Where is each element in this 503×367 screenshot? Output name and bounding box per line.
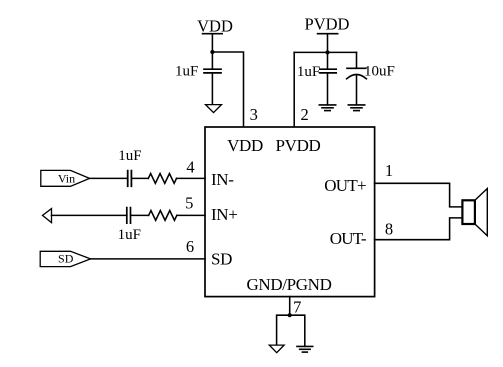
svg-text:Vin: Vin: [58, 171, 75, 185]
svg-text:2: 2: [300, 105, 308, 124]
ground (pin 7 right): [297, 346, 313, 352]
svg-text:OUT+: OUT+: [324, 176, 366, 195]
svg-text:3: 3: [250, 105, 258, 124]
wire arrow to C5: [52, 214, 127, 216]
wire C4 to R1: [131, 177, 148, 179]
node B (PVDD junction): [325, 50, 329, 54]
svg-text:4: 4: [186, 157, 194, 176]
wire C5 to R2: [131, 214, 149, 216]
wire R2 to pin 5: [177, 214, 205, 216]
svg-text:6: 6: [186, 237, 194, 256]
svg-text:1uF: 1uF: [175, 64, 198, 80]
svg-text:VDD: VDD: [197, 17, 233, 36]
svg-text:IN-: IN-: [211, 170, 234, 189]
wire pin 7 GND/PGND: [289, 297, 291, 316]
wire SD to pin 6: [91, 258, 205, 260]
resistor R1: [148, 174, 176, 184]
ground (C3): [348, 105, 364, 111]
power symbol VDD: [197, 17, 233, 52]
svg-text:1: 1: [385, 161, 393, 180]
capacitor C3 10uF (PVDD, polarized): [347, 52, 367, 105]
connector Vin (input flag): [41, 170, 90, 186]
op-amp U1 (amplifier IC body): [205, 127, 375, 297]
wire VDD node to pin 3: [212, 52, 243, 128]
svg-text:OUT-: OUT-: [330, 229, 367, 248]
svg-text:10uF: 10uF: [364, 63, 395, 79]
svg-text:7: 7: [293, 297, 301, 316]
wire PVDD rail: [294, 51, 356, 53]
wire junction to right ground: [290, 315, 305, 346]
power symbol PVDD: [305, 15, 350, 53]
svg-text:SD: SD: [58, 252, 74, 266]
svg-text:5: 5: [185, 194, 193, 213]
svg-text:PVDD: PVDD: [305, 15, 350, 34]
svg-text:VDD: VDD: [227, 136, 263, 155]
svg-text:1uF: 1uF: [297, 64, 320, 80]
svg-text:1uF: 1uF: [118, 148, 141, 164]
ground (open triangle, VDD branch): [206, 105, 222, 113]
capacitor C1 1uF (VDD decoupling): [204, 52, 221, 105]
wire R1 to pin 4: [177, 177, 206, 179]
connector IN+ (open arrow): [43, 209, 52, 223]
wire PVDD rail to pin 2: [293, 52, 295, 127]
wire Vin to C4: [90, 177, 128, 179]
svg-text:GND/PGND: GND/PGND: [246, 275, 331, 294]
capacitor C5 1uF (IN+ input): [127, 208, 131, 224]
ground (C2): [319, 105, 335, 111]
ground (open triangle, pin 7 left): [269, 345, 284, 353]
node A (VDD junction): [210, 50, 214, 54]
svg-text:IN+: IN+: [211, 205, 237, 224]
resistor R2: [149, 211, 177, 221]
wire pin 1 OUT+: [375, 183, 463, 207]
wire pin 8 OUT-: [375, 218, 463, 240]
capacitor C4 1uF (IN- input): [128, 171, 132, 187]
svg-text:8: 8: [385, 220, 393, 239]
svg-text:1uF: 1uF: [118, 227, 141, 243]
node C (pin 7 junction): [288, 313, 292, 317]
svg-text:SD: SD: [211, 249, 232, 268]
connector SD (input flag): [40, 251, 90, 266]
wire junction to left ground: [277, 315, 290, 345]
capacitor C2 1uF (PVDD): [320, 52, 336, 105]
speaker LS1: [462, 189, 487, 236]
svg-text:PVDD: PVDD: [276, 136, 321, 155]
